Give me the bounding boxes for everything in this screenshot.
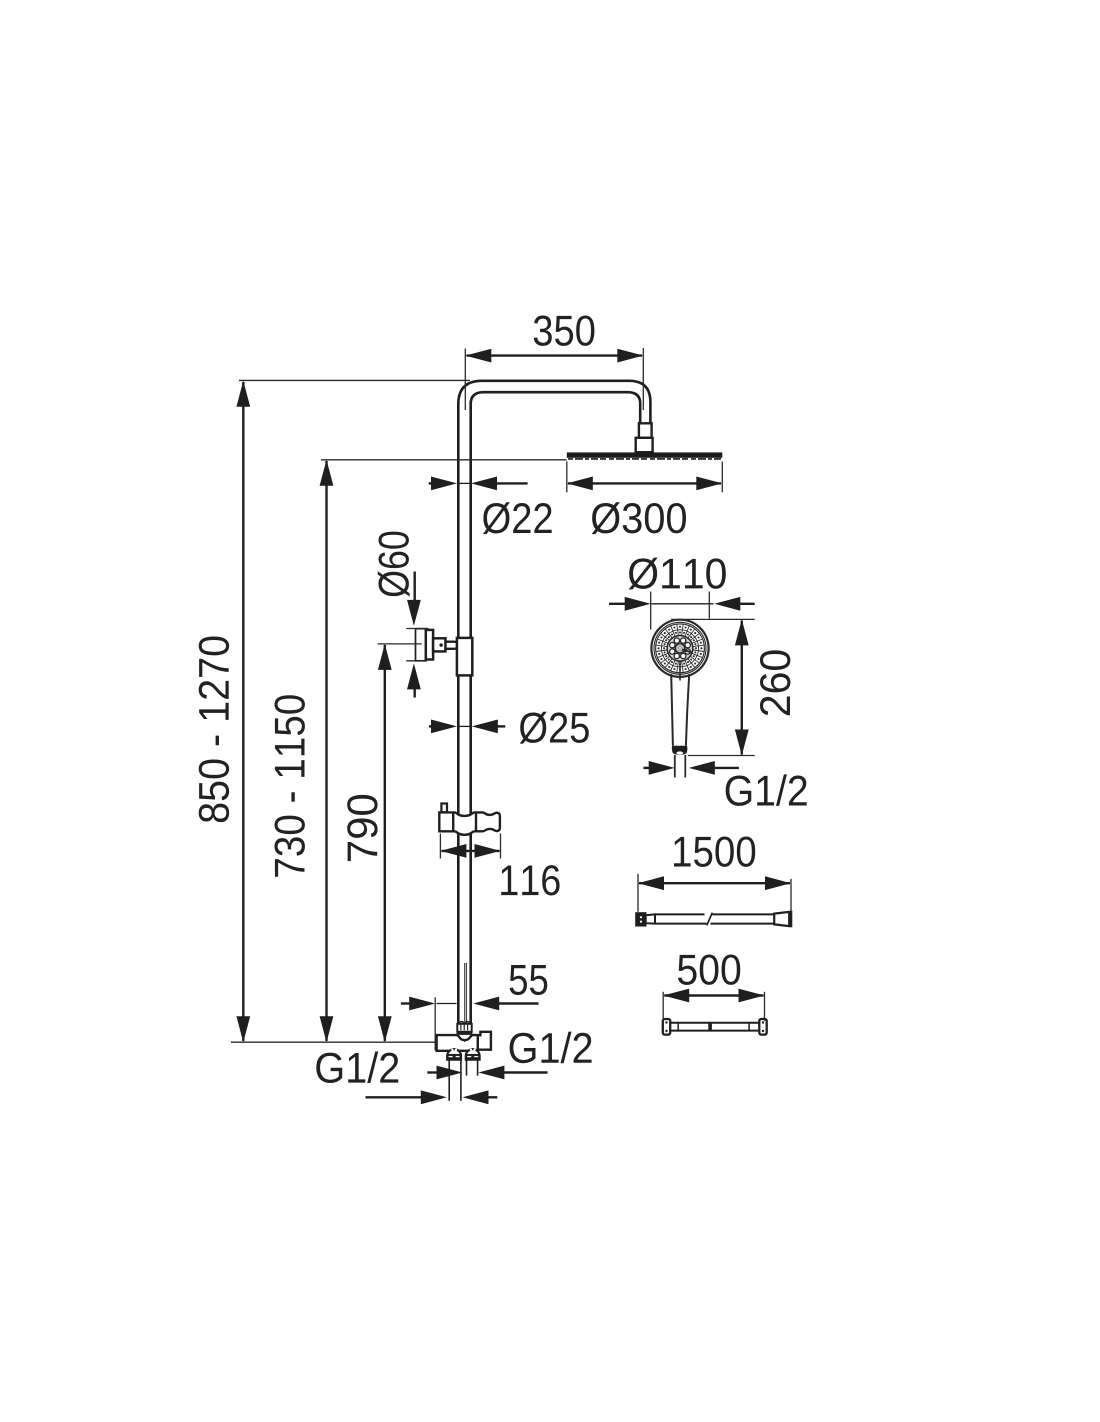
reference line top wall height: [239, 379, 470, 381]
hand shower inlet stub G1/2: [675, 755, 686, 778]
wall bracket pivot block: [433, 638, 445, 651]
label 55: [510, 965, 548, 995]
hand shower hub center: [675, 644, 685, 654]
nut flare band: [456, 1031, 473, 1035]
dimension 730 - 1150 line: [320, 460, 334, 1042]
label D22: [483, 502, 552, 534]
dimension D300 extension lines: [567, 462, 723, 493]
hand shower hub jets: [670, 638, 691, 659]
dimension 850 - 1270 line: [236, 381, 250, 1042]
hose right end cone fitting: [774, 912, 791, 926]
hand shower hub: [667, 636, 692, 661]
rail tube separator left: [677, 1023, 679, 1031]
rain shower head nozzle edge: [568, 458, 721, 460]
hose left collar: [646, 914, 655, 923]
label 730 - 1150 (rotated): [274, 695, 304, 877]
wall bracket pivot pin: [439, 643, 442, 646]
hand shower slider knob: [441, 804, 447, 813]
slider holder divider left: [452, 812, 454, 831]
wall bracket arm to riser: [446, 642, 460, 649]
nut top bumps: [460, 1022, 470, 1024]
hose tube: [655, 914, 774, 923]
shower riser pipe (vertical column): [458, 402, 470, 1025]
arm connector block above rain head: [636, 438, 653, 452]
hand shower handle: [671, 674, 689, 746]
dimension 790 line: [378, 644, 392, 1042]
dimension 260 reference lines: [671, 619, 755, 755]
right outlet nut band: [465, 1054, 480, 1060]
label D110: [629, 558, 726, 590]
right outlet stub pipe: [467, 1060, 478, 1076]
label 500: [678, 954, 740, 984]
label 850 - 1270 (rotated): [199, 636, 229, 822]
slider holder divider right: [475, 812, 477, 831]
rain shower head (edge view): [567, 452, 723, 457]
dimension D300 line: [567, 477, 723, 491]
reference tick at wall bracket center: [378, 643, 422, 645]
dimension 350 line: [465, 349, 643, 363]
hand shower cap highlight: [676, 751, 683, 754]
label D60 (rotated): [378, 532, 410, 597]
label D25: [520, 712, 589, 744]
wall rail tube: [670, 1023, 759, 1031]
hand shower nozzle ring: [656, 624, 704, 672]
shower hose left end fitting: [636, 913, 645, 925]
label D300: [592, 502, 686, 534]
hand shower slider holder body: [439, 812, 500, 834]
hose left fitting holes: [640, 916, 642, 918]
riser compression nut above valve: [457, 1024, 471, 1032]
label 790 (rotated): [347, 795, 377, 861]
hand shower head rim ring 3: [656, 624, 705, 673]
left outlet nut holes: [451, 1048, 453, 1050]
label G1/2 left outlet: [316, 1051, 398, 1083]
dimension D25 arrows at riser: [429, 720, 505, 734]
wall rail right end block: [759, 1019, 766, 1035]
label 1500: [674, 836, 755, 866]
dimension G1/2 arrows at left valve outlet: [366, 1090, 498, 1104]
reference line rain head level: [321, 459, 567, 461]
dimension 500 extension lines: [663, 992, 764, 1021]
dimension 1500 line: [638, 876, 791, 890]
mixer valve body: [437, 1035, 478, 1051]
riser inner tube lines near bottom: [465, 963, 467, 1023]
hand shower head outer rim: [651, 620, 708, 677]
D60 tick bottom: [406, 660, 422, 662]
dimension 116 line: [440, 844, 500, 858]
riser sleeve at wall bracket: [457, 638, 472, 676]
wall bracket flange: [426, 630, 433, 660]
label 116: [501, 865, 559, 895]
right outlet nut slit: [467, 1056, 471, 1058]
label G1/2 right outlet: [510, 1032, 592, 1064]
dimension D60 arrows at wall bracket: [407, 572, 421, 698]
shower arm (top horizontal tube with bends): [458, 381, 650, 424]
hand shower head rim ring 2: [654, 622, 706, 674]
valve right outlet nut: [466, 1049, 480, 1060]
wall bracket plate (upper): [416, 629, 426, 661]
rail right block screws: [762, 1021, 764, 1023]
D60 tick top: [406, 628, 428, 630]
valve right outlet port: [478, 1032, 491, 1050]
wall rail left end block: [663, 1019, 670, 1035]
left outlet nut band: [447, 1054, 462, 1060]
nut knurl ticks: [461, 1025, 468, 1031]
dimension G1/2 arrows at right valve outlet: [427, 1066, 547, 1080]
right outlet nut holes: [470, 1048, 472, 1050]
label G1/2 hand shower: [726, 774, 807, 806]
valve left outlet nut: [447, 1049, 461, 1060]
dimension 116 extension lines: [440, 834, 500, 859]
left outlet nut slit: [449, 1056, 453, 1058]
valve center notch: [463, 1040, 466, 1043]
dimension 55 extension line: [434, 997, 436, 1050]
hand shower hub lever: [682, 650, 692, 653]
left outlet stub pipe: [449, 1060, 461, 1101]
dimension 350 extension lines: [465, 348, 643, 410]
dimension 260 line: [735, 619, 749, 755]
rail left block screws: [665, 1021, 667, 1023]
reference line valve level: [231, 1041, 437, 1043]
dimension D22 arrows at riser: [429, 477, 528, 491]
dimension 500 line: [663, 989, 764, 1003]
dimension G1/2 arrows at hand shower: [643, 761, 739, 775]
rail center clamp: [708, 1023, 712, 1030]
label 260 (rotated): [760, 650, 790, 715]
rail tube separator right: [748, 1023, 750, 1031]
hose break symbol: [707, 913, 713, 926]
dimension 55 arrows: [401, 997, 539, 1011]
dimension 1500 extension lines: [638, 874, 791, 913]
label 350: [534, 315, 595, 345]
arm connector nut above rain head: [639, 423, 652, 438]
dimension D110 arrows: [609, 597, 755, 611]
hand shower face center line: [679, 661, 681, 681]
dimension D110 extension lines: [651, 592, 710, 630]
hand shower handle end cap: [672, 746, 688, 755]
